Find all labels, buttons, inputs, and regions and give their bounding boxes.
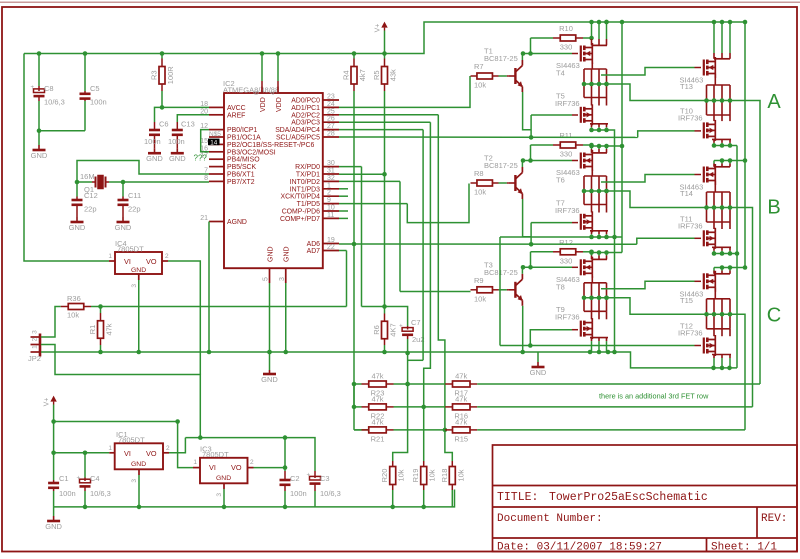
svg-text:COMP+/PD7: COMP+/PD7 — [280, 216, 320, 223]
svg-text:1: 1 — [108, 253, 112, 260]
svg-text:GND: GND — [267, 246, 274, 262]
svg-text:BC817-25: BC817-25 — [484, 161, 518, 170]
svg-text:7805DT: 7805DT — [117, 244, 144, 253]
svg-text:9: 9 — [327, 197, 331, 204]
svg-text:47k: 47k — [371, 417, 383, 426]
svg-text:R7: R7 — [474, 62, 484, 71]
svg-text:VDD: VDD — [260, 97, 267, 112]
svg-text:100R: 100R — [166, 66, 175, 85]
svg-text:47k: 47k — [371, 394, 383, 403]
svg-text:100n: 100n — [144, 137, 161, 146]
svg-text:10: 10 — [327, 205, 335, 212]
svg-text:AVCC: AVCC — [227, 105, 246, 112]
svg-text:PB5/SCK: PB5/SCK — [227, 164, 257, 171]
svg-text:R9: R9 — [474, 276, 484, 285]
svg-text:31: 31 — [327, 168, 335, 175]
svg-text:V+: V+ — [44, 398, 51, 407]
svg-text:T13: T13 — [680, 82, 693, 91]
svg-text:21: 21 — [200, 215, 208, 222]
svg-text:47k: 47k — [455, 372, 467, 381]
svg-text:100n: 100n — [168, 137, 185, 146]
svg-text:TITLE:: TITLE: — [497, 491, 538, 504]
svg-text:VO: VO — [146, 257, 157, 266]
svg-text:INT0/PD2: INT0/PD2 — [290, 179, 320, 186]
svg-text:C: C — [767, 305, 781, 327]
svg-text:GND: GND — [169, 154, 186, 163]
svg-text:T8: T8 — [556, 282, 565, 291]
svg-text:COMP-/PD6: COMP-/PD6 — [282, 209, 320, 216]
svg-text:GND: GND — [131, 267, 146, 274]
svg-text:4K7: 4K7 — [389, 323, 398, 336]
svg-text:10/6,3: 10/6,3 — [90, 489, 111, 498]
svg-text:7805DT: 7805DT — [202, 450, 229, 459]
svg-text:28: 28 — [327, 131, 335, 138]
svg-text:PB3/OC2/MOSI: PB3/OC2/MOSI — [227, 149, 276, 156]
svg-text:AD3/PC3: AD3/PC3 — [291, 120, 320, 127]
svg-text:AD0/PC0: AD0/PC0 — [291, 98, 320, 105]
svg-text:47k: 47k — [455, 417, 467, 426]
svg-text:VDD: VDD — [276, 97, 283, 112]
svg-text:1: 1 — [193, 459, 197, 466]
svg-text:C4: C4 — [90, 474, 100, 483]
svg-text:B: B — [767, 197, 780, 219]
svg-text:100n: 100n — [90, 98, 107, 107]
svg-text:10k: 10k — [474, 188, 486, 197]
svg-text:24: 24 — [327, 101, 335, 108]
svg-text:T4: T4 — [556, 69, 565, 78]
svg-text:11: 11 — [327, 212, 334, 219]
svg-text:PB4/MISO: PB4/MISO — [227, 157, 260, 164]
svg-text:GND: GND — [530, 368, 547, 377]
svg-text:T1/PD5: T1/PD5 — [297, 201, 321, 208]
svg-text:JP2: JP2 — [28, 354, 41, 363]
svg-text:BC817-25: BC817-25 — [484, 54, 518, 63]
svg-text:GND: GND — [216, 475, 231, 482]
svg-text:IRF736: IRF736 — [678, 329, 703, 338]
svg-text:C3: C3 — [320, 474, 330, 483]
svg-text:R8: R8 — [474, 169, 484, 178]
svg-text:10k: 10k — [474, 81, 486, 90]
svg-text:32: 32 — [327, 175, 335, 182]
svg-text:C6: C6 — [159, 120, 169, 129]
svg-text:C2: C2 — [290, 474, 300, 483]
svg-text:30: 30 — [327, 160, 335, 167]
svg-text:GND: GND — [69, 223, 86, 232]
svg-text:19: 19 — [327, 237, 335, 244]
svg-text:GND: GND — [131, 461, 146, 468]
svg-text:2: 2 — [327, 190, 331, 197]
svg-text:16M: 16M — [80, 172, 95, 181]
svg-text:4: 4 — [270, 91, 277, 95]
svg-text:REV:: REV: — [761, 513, 787, 525]
svg-text:10k: 10k — [428, 469, 437, 481]
svg-text:3: 3 — [279, 277, 286, 281]
svg-text:T6: T6 — [556, 176, 565, 185]
svg-text:IRF736: IRF736 — [678, 221, 703, 230]
svg-text:VO: VO — [146, 449, 157, 458]
svg-text:AGND: AGND — [227, 219, 247, 226]
svg-text:10k: 10k — [397, 469, 406, 481]
svg-text:10k: 10k — [456, 469, 465, 481]
svg-text:PB6/XT1: PB6/XT1 — [227, 172, 255, 179]
svg-text:C1: C1 — [59, 474, 69, 483]
svg-text:GND: GND — [146, 154, 163, 163]
svg-text:???: ??? — [194, 154, 208, 163]
svg-text:R10: R10 — [559, 24, 573, 33]
svg-text:R20: R20 — [380, 469, 389, 483]
svg-text:330: 330 — [560, 150, 573, 159]
svg-text:22p: 22p — [128, 205, 141, 214]
svg-text:Sheet: 1/1: Sheet: 1/1 — [711, 542, 777, 554]
svg-text:10/6,3: 10/6,3 — [320, 489, 341, 498]
svg-text:AD6: AD6 — [307, 241, 321, 248]
svg-text:PB0/ICP1: PB0/ICP1 — [227, 127, 257, 134]
svg-text:47k: 47k — [105, 323, 114, 335]
svg-text:PB7/XT2: PB7/XT2 — [227, 179, 255, 186]
svg-text:1: 1 — [32, 345, 39, 349]
svg-text:3: 3 — [131, 479, 138, 483]
svg-text:AD7: AD7 — [307, 248, 321, 255]
svg-text:100n: 100n — [59, 489, 76, 498]
svg-text:C8: C8 — [44, 84, 54, 93]
svg-text:5: 5 — [263, 277, 270, 281]
svg-text:PB2/OC1B/SS-RESET-/PC6: PB2/OC1B/SS-RESET-/PC6 — [227, 142, 314, 149]
svg-text:R19: R19 — [411, 469, 420, 483]
svg-text:1: 1 — [108, 445, 112, 452]
svg-text:N$5: N$5 — [209, 131, 221, 138]
svg-text:10k: 10k — [67, 311, 79, 320]
svg-text:VI: VI — [124, 449, 131, 458]
svg-text:R1: R1 — [88, 325, 97, 335]
svg-text:T14: T14 — [680, 189, 693, 198]
svg-text:2: 2 — [165, 253, 169, 260]
svg-text:V+: V+ — [375, 24, 382, 33]
svg-text:330: 330 — [560, 256, 573, 265]
svg-text:GND: GND — [284, 246, 291, 262]
svg-text:IRF736: IRF736 — [555, 99, 580, 108]
svg-text:VI: VI — [124, 257, 131, 266]
svg-text:R3: R3 — [150, 70, 159, 80]
svg-text:C7: C7 — [411, 318, 421, 327]
svg-text:+: + — [31, 85, 35, 91]
svg-text:14: 14 — [210, 139, 218, 146]
svg-text:IRF736: IRF736 — [555, 313, 580, 322]
svg-text:R5: R5 — [372, 70, 381, 80]
svg-text:C13: C13 — [181, 120, 195, 129]
svg-text:2: 2 — [166, 445, 170, 452]
svg-text:C5: C5 — [90, 84, 100, 93]
svg-text:26: 26 — [327, 116, 335, 123]
svg-text:SCL/AD5/PC5: SCL/AD5/PC5 — [276, 135, 320, 142]
svg-text:BC817-25: BC817-25 — [484, 268, 518, 277]
svg-text:43k: 43k — [389, 69, 398, 81]
svg-text:XCK/T0/PD4: XCK/T0/PD4 — [281, 194, 321, 201]
svg-text:AD1/PC1: AD1/PC1 — [291, 105, 320, 112]
svg-text:2: 2 — [250, 459, 254, 466]
svg-text:GND: GND — [261, 375, 278, 384]
svg-text:22p: 22p — [84, 205, 97, 214]
svg-text:47k: 47k — [371, 372, 383, 381]
svg-text:3: 3 — [216, 493, 223, 497]
svg-text:7805DT: 7805DT — [118, 436, 145, 445]
svg-text:2: 2 — [32, 337, 39, 341]
svg-text:PB1/OC1A: PB1/OC1A — [227, 135, 261, 142]
svg-text:IRF736: IRF736 — [555, 206, 580, 215]
svg-text:4k7: 4k7 — [358, 69, 367, 81]
svg-text:VI: VI — [209, 463, 216, 472]
svg-text:27: 27 — [327, 123, 335, 130]
svg-text:RX/PD0: RX/PD0 — [295, 164, 320, 171]
svg-text:3: 3 — [32, 330, 39, 334]
svg-text:INT1/PD3: INT1/PD3 — [290, 186, 320, 193]
svg-text:100n: 100n — [290, 489, 307, 498]
svg-text:22: 22 — [327, 244, 335, 251]
svg-text:VO: VO — [231, 463, 242, 472]
svg-text:AD2/PC2: AD2/PC2 — [291, 112, 320, 119]
svg-text:R11: R11 — [559, 131, 572, 140]
svg-text:10k: 10k — [474, 294, 486, 303]
svg-text:10/6,3: 10/6,3 — [44, 98, 65, 107]
svg-text:GND: GND — [31, 151, 48, 160]
svg-text:+: + — [399, 324, 403, 330]
svg-text:Document Number:: Document Number: — [497, 513, 603, 525]
svg-text:R15: R15 — [454, 434, 468, 443]
svg-text:R18: R18 — [440, 469, 449, 483]
svg-text:C11: C11 — [128, 191, 141, 200]
svg-text:47k: 47k — [455, 394, 467, 403]
svg-text:3: 3 — [131, 284, 138, 288]
svg-text:R12: R12 — [559, 238, 573, 247]
svg-text:C12: C12 — [84, 191, 98, 200]
svg-text:AREF: AREF — [227, 112, 245, 119]
svg-text:R4: R4 — [342, 70, 351, 80]
svg-text:+: + — [77, 475, 81, 481]
svg-text:IRF736: IRF736 — [678, 113, 703, 122]
svg-text:23: 23 — [327, 94, 335, 101]
svg-text:SDA/AD4/PC4: SDA/AD4/PC4 — [275, 127, 320, 134]
svg-text:T15: T15 — [680, 296, 693, 305]
svg-text:25: 25 — [327, 108, 335, 115]
svg-text:R36: R36 — [67, 294, 81, 303]
svg-text:A: A — [767, 91, 781, 113]
svg-text:there is an additional 3rd FET: there is an additional 3rd FET row — [599, 392, 709, 401]
svg-text:GND: GND — [115, 223, 132, 232]
svg-text:+: + — [307, 473, 311, 479]
svg-text:Date: 03/11/2007 18:59:27: Date: 03/11/2007 18:59:27 — [497, 542, 662, 554]
svg-text:1: 1 — [327, 182, 331, 189]
svg-text:TX/PD1: TX/PD1 — [296, 172, 320, 179]
svg-text:330: 330 — [560, 43, 573, 52]
svg-text:R21: R21 — [371, 434, 385, 443]
svg-text:R6: R6 — [372, 325, 381, 335]
svg-text:GND: GND — [45, 522, 62, 531]
svg-text:8: 8 — [204, 175, 208, 182]
svg-text:6: 6 — [254, 91, 261, 95]
svg-text:TowerPro25aEscSchematic: TowerPro25aEscSchematic — [549, 491, 708, 504]
